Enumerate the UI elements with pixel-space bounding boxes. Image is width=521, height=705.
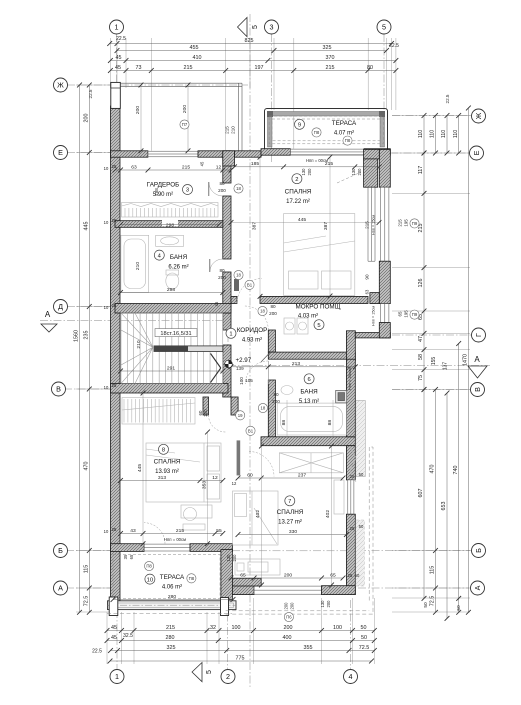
svg-text:65: 65 xyxy=(129,554,134,559)
svg-text:197: 197 xyxy=(255,65,264,71)
svg-text:200: 200 xyxy=(84,114,90,123)
svg-text:5: 5 xyxy=(252,25,259,29)
window 215-195 right xyxy=(380,187,389,261)
terrace9 parapet outline xyxy=(265,109,388,156)
svg-text:50: 50 xyxy=(423,602,429,608)
extension lines right xyxy=(392,115,470,117)
grid axis 5 vertical xyxy=(383,34,385,112)
svg-text:В1: В1 xyxy=(247,282,253,287)
grid line E left xyxy=(67,152,112,154)
svg-text:110: 110 xyxy=(441,130,447,138)
svg-text:18: 18 xyxy=(260,309,265,314)
svg-text:18: 18 xyxy=(236,273,241,278)
svg-text:10: 10 xyxy=(104,220,109,225)
svg-text:200: 200 xyxy=(284,602,289,610)
svg-text:50: 50 xyxy=(355,573,360,578)
svg-text:2: 2 xyxy=(226,672,230,681)
svg-text:13.93 m²: 13.93 m² xyxy=(155,469,179,475)
dim right total 1470 xyxy=(463,106,471,615)
svg-text:22.5: 22.5 xyxy=(389,43,399,49)
svg-text:60: 60 xyxy=(247,472,253,478)
svg-text:ГАРДЕРОБ: ГАРДЕРОБ xyxy=(147,182,180,189)
svg-text:215: 215 xyxy=(326,65,335,71)
terrace door window 130-200 xyxy=(290,149,364,156)
svg-text:5: 5 xyxy=(206,670,213,674)
door spalnya7 arc xyxy=(249,452,274,477)
svg-text:215: 215 xyxy=(365,221,370,229)
room label terasa10 xyxy=(160,574,185,591)
svg-text:126: 126 xyxy=(418,279,424,288)
wall east jog xyxy=(355,333,390,338)
svg-text:4.03 m²: 4.03 m² xyxy=(298,314,318,320)
svg-text:445: 445 xyxy=(84,222,90,231)
dashed roof outline bottom-right xyxy=(226,447,373,614)
svg-text:БАНЯ: БАНЯ xyxy=(170,254,188,261)
wall spalnya7 south right xyxy=(322,586,356,595)
svg-text:210: 210 xyxy=(135,262,141,270)
svg-text:90: 90 xyxy=(365,274,370,280)
svg-text:80: 80 xyxy=(270,304,276,309)
svg-text:200: 200 xyxy=(203,409,208,417)
svg-text:12: 12 xyxy=(216,164,222,170)
wall spalnya2 east corner block xyxy=(364,149,380,159)
svg-text:215: 215 xyxy=(176,528,184,534)
svg-text:75: 75 xyxy=(418,375,424,381)
bed spalnya8 xyxy=(146,443,221,502)
wall right outer low xyxy=(379,323,390,338)
svg-text:200: 200 xyxy=(290,602,295,610)
svg-text:400: 400 xyxy=(283,635,292,641)
svg-text:ТЕРАСА: ТЕРАСА xyxy=(332,120,357,127)
terrace10 dashed border xyxy=(113,555,220,599)
wall spalnya7 south left xyxy=(226,586,254,595)
svg-text:25: 25 xyxy=(112,218,117,223)
grid bubble V left xyxy=(52,382,66,396)
svg-text:200: 200 xyxy=(232,554,237,562)
grid line V left xyxy=(64,388,112,390)
room label garderob xyxy=(147,182,180,199)
svg-text:775: 775 xyxy=(236,655,245,661)
svg-text:130: 130 xyxy=(301,168,306,176)
stairs handrail xyxy=(154,346,223,352)
svg-text:5.13 m²: 5.13 m² xyxy=(299,399,319,405)
wall corridor top stub xyxy=(231,296,237,303)
svg-text:35: 35 xyxy=(123,554,128,559)
svg-text:18: 18 xyxy=(236,186,241,191)
svg-text:45: 45 xyxy=(111,625,117,631)
svg-text:50: 50 xyxy=(361,625,367,631)
grid bubble Zh left xyxy=(54,78,68,92)
dim line corridor 200 b xyxy=(187,85,189,151)
svg-text:387: 387 xyxy=(323,222,329,230)
svg-text:Нпп = 00см: Нпп = 00см xyxy=(164,537,186,542)
wall pier at window65 xyxy=(370,293,379,304)
dim chain top 825 xyxy=(107,38,394,46)
grid line B through spalnya7 xyxy=(232,550,358,552)
svg-text:50: 50 xyxy=(361,635,367,641)
wall terrace10 east xyxy=(221,550,233,600)
svg-text:470: 470 xyxy=(84,462,90,471)
dashed line under terrace10 xyxy=(107,613,232,615)
svg-text:470: 470 xyxy=(430,465,436,474)
svg-text:130: 130 xyxy=(320,600,325,608)
svg-text:1: 1 xyxy=(229,332,232,338)
svg-text:25: 25 xyxy=(112,164,117,169)
svg-text:6: 6 xyxy=(307,377,310,383)
svg-text:110: 110 xyxy=(453,130,459,138)
svg-text:Нпп = 15см: Нпп = 15см xyxy=(372,215,376,235)
svg-text:330: 330 xyxy=(289,529,297,535)
room number 2 xyxy=(292,174,302,184)
svg-text:45: 45 xyxy=(115,65,121,71)
stairs treads xyxy=(121,313,223,384)
svg-text:Ж: Ж xyxy=(57,81,64,90)
svg-text:215: 215 xyxy=(182,164,190,170)
svg-text:402: 402 xyxy=(255,510,261,518)
grid bubble V right xyxy=(471,383,485,397)
svg-text:105: 105 xyxy=(245,378,253,383)
svg-text:25: 25 xyxy=(350,474,355,479)
electrical panel spalnya2 xyxy=(234,279,239,291)
svg-text:370: 370 xyxy=(326,55,335,61)
wall E left segment xyxy=(111,151,149,157)
svg-text:Е: Е xyxy=(472,150,481,155)
wall right outer mid xyxy=(379,261,390,303)
dim chain bottom 1 xyxy=(105,625,377,633)
svg-text:17.22 m²: 17.22 m² xyxy=(286,199,310,205)
wardrobe garderob xyxy=(122,203,219,218)
dim stairs 291 xyxy=(118,365,225,373)
grid bubble B left xyxy=(54,544,68,558)
wall E right segment xyxy=(198,151,235,157)
svg-text:355: 355 xyxy=(304,645,313,651)
svg-text:100: 100 xyxy=(232,625,241,631)
tag B1 spalnya2 xyxy=(245,280,254,289)
wall banya4-stairs xyxy=(115,304,231,314)
svg-text:237: 237 xyxy=(298,472,306,478)
dim chain bottom 775 xyxy=(108,655,374,663)
svg-text:5: 5 xyxy=(317,323,320,329)
dresser spalnya7 xyxy=(235,559,280,575)
svg-text:ТЕРАСА: ТЕРАСА xyxy=(160,574,185,581)
svg-text:25: 25 xyxy=(350,526,355,531)
svg-text:88: 88 xyxy=(327,420,333,426)
svg-text:Б: Б xyxy=(474,548,483,553)
svg-text:402: 402 xyxy=(325,510,331,518)
svg-text:280: 280 xyxy=(166,635,175,641)
svg-text:235: 235 xyxy=(84,331,90,340)
svg-text:4.06 m²: 4.06 m² xyxy=(162,585,182,591)
partition spalnya7 west xyxy=(237,440,241,475)
svg-text:10: 10 xyxy=(104,385,109,390)
svg-text:10: 10 xyxy=(104,529,109,534)
svg-text:8: 8 xyxy=(162,448,165,454)
wall left outer xyxy=(111,106,121,609)
room label koridor xyxy=(237,327,268,344)
svg-text:80: 80 xyxy=(273,392,279,397)
svg-text:50: 50 xyxy=(359,524,364,529)
section line 5-5 vertical xyxy=(249,14,251,688)
grid bubble E right xyxy=(470,146,484,160)
svg-text:200: 200 xyxy=(218,188,226,193)
dim chain bottom 2 xyxy=(105,635,377,643)
terrace9 parapet top bar xyxy=(268,112,385,117)
door terrace10 arc xyxy=(144,523,165,544)
grid line A low right xyxy=(358,587,469,589)
svg-text:Г: Г xyxy=(474,333,483,337)
parapet top corridor xyxy=(120,83,242,151)
dim chain top 45-73-215-197-215-80 xyxy=(108,65,398,73)
grid bubble G right xyxy=(472,328,486,342)
svg-text:25: 25 xyxy=(112,527,117,532)
svg-text:Нпп = 15см: Нпп = 15см xyxy=(348,370,352,390)
svg-text:П8: П8 xyxy=(189,576,195,581)
svg-text:445: 445 xyxy=(298,217,306,223)
svg-text:195: 195 xyxy=(404,310,409,318)
toilet banya4 xyxy=(166,270,179,289)
grid axis 4 vertical xyxy=(350,600,352,669)
svg-text:110: 110 xyxy=(430,130,436,138)
svg-text:291: 291 xyxy=(167,365,175,371)
window P7 lintel in E wall xyxy=(148,151,198,157)
wall central upper a xyxy=(223,151,231,183)
right offsets chain 110x4 xyxy=(423,116,425,154)
svg-text:210: 210 xyxy=(231,126,236,134)
tag door 18 mokro xyxy=(258,306,267,315)
svg-text:4.07 m²: 4.07 m² xyxy=(334,131,354,137)
svg-text:80: 80 xyxy=(219,181,225,186)
svg-text:П8: П8 xyxy=(345,138,351,143)
dim spalnya7 330 xyxy=(236,529,349,537)
svg-text:65: 65 xyxy=(330,572,336,578)
dim spalnya2 185-215 xyxy=(232,161,382,169)
svg-text:215: 215 xyxy=(184,65,193,71)
wall mokro west lower xyxy=(268,330,275,352)
washing machine banya6 xyxy=(336,390,347,403)
svg-text:325: 325 xyxy=(167,645,176,651)
grid bubble 3 top xyxy=(265,20,279,34)
svg-text:63: 63 xyxy=(131,164,137,170)
room number 10 xyxy=(145,574,155,584)
ledge dashed strip right of spalnya7 xyxy=(356,520,365,586)
svg-text:22.5: 22.5 xyxy=(88,89,93,98)
grid bubble 1 top xyxy=(110,20,124,34)
wall stairs-spalnya8 xyxy=(111,384,229,394)
svg-text:Нпп = 00см: Нпп = 00см xyxy=(306,158,328,163)
svg-text:50: 50 xyxy=(456,605,462,611)
wall garderob-banya4 xyxy=(115,221,223,228)
extension lines left xyxy=(76,84,110,86)
svg-text:65: 65 xyxy=(240,572,246,578)
wall banya6 west xyxy=(268,380,275,437)
svg-text:4.93 m²: 4.93 m² xyxy=(242,338,262,344)
svg-text:A: A xyxy=(474,355,480,364)
extension lines bottom xyxy=(106,612,108,664)
svg-text:50: 50 xyxy=(359,472,364,477)
svg-text:155: 155 xyxy=(431,357,437,366)
grid axis 3 vertical xyxy=(271,34,273,162)
tag P8 terrace10 a xyxy=(145,561,154,570)
wall central corner block xyxy=(223,151,235,166)
svg-text:110: 110 xyxy=(418,130,424,138)
svg-text:В: В xyxy=(56,385,61,394)
svg-text:БАНЯ: БАНЯ xyxy=(300,389,318,396)
wardrobe spalnya7 top xyxy=(279,453,343,473)
tag door 18 garderob xyxy=(234,184,243,193)
svg-text:55: 55 xyxy=(216,528,222,534)
svg-text:1: 1 xyxy=(115,672,119,681)
grid axis 2 vertical xyxy=(227,600,229,669)
door banya6 arc xyxy=(245,361,268,384)
dim line corridor 200 a xyxy=(140,85,142,151)
dim chain top 455-325 xyxy=(115,45,389,53)
svg-text:22.5: 22.5 xyxy=(92,649,102,655)
wall banya6-spalnya7 xyxy=(261,437,355,446)
svg-text:213: 213 xyxy=(292,361,300,367)
svg-text:43: 43 xyxy=(130,528,136,534)
dim spalnya7 south xyxy=(229,572,346,580)
svg-text:137: 137 xyxy=(443,362,449,371)
svg-text:П6: П6 xyxy=(286,615,292,620)
inner glazing spalnya2 east xyxy=(368,187,375,261)
svg-text:139: 139 xyxy=(236,366,244,371)
svg-text:1560: 1560 xyxy=(74,330,80,342)
svg-text:A: A xyxy=(45,310,51,319)
svg-text:72.5: 72.5 xyxy=(359,645,370,651)
wall central upper c xyxy=(223,272,231,313)
dim line spalnya2 vertical 387 xyxy=(329,157,331,296)
tag door 19 spalnya8 xyxy=(236,411,245,420)
section marker 5 bottom xyxy=(192,663,213,682)
svg-text:215: 215 xyxy=(398,219,403,227)
svg-text:353: 353 xyxy=(202,481,208,489)
svg-text:МОКРО ПОМЩ: МОКРО ПОМЩ xyxy=(295,304,340,311)
svg-text:825: 825 xyxy=(245,38,254,44)
svg-text:А: А xyxy=(58,584,63,593)
svg-text:210: 210 xyxy=(136,340,142,348)
dim line banya6 88a xyxy=(286,400,288,437)
svg-text:3: 3 xyxy=(186,188,189,194)
room label banya4 xyxy=(168,254,188,271)
svg-text:25: 25 xyxy=(112,303,117,308)
svg-text:1: 1 xyxy=(115,23,119,32)
room number 7 xyxy=(285,496,295,506)
section marker A right xyxy=(468,355,487,378)
window 65-195 right xyxy=(380,304,389,323)
svg-text:6.26 m²: 6.26 m² xyxy=(168,265,188,271)
door banya4 arc xyxy=(210,259,223,272)
svg-text:1470: 1470 xyxy=(463,354,469,366)
grid line Zh left xyxy=(67,84,248,86)
level mark +2.97 xyxy=(225,357,252,371)
svg-text:653: 653 xyxy=(441,502,447,511)
grid line E right xyxy=(390,152,469,154)
terrace10 parapet right post xyxy=(221,598,229,616)
door mokro arc xyxy=(244,306,268,330)
svg-text:100: 100 xyxy=(239,377,244,385)
grid bubble E left xyxy=(54,146,68,160)
room number 1 xyxy=(226,328,236,338)
section line A-A jog xyxy=(227,321,229,366)
window direction dash spalnya2 xyxy=(337,172,361,183)
section jog slash xyxy=(261,353,270,363)
svg-text:12: 12 xyxy=(232,481,237,486)
dim chain top 45-410-370 xyxy=(108,55,398,63)
tag P8 terrace10 b xyxy=(187,574,196,583)
tag window right b xyxy=(410,310,419,319)
svg-text:200: 200 xyxy=(182,105,188,113)
bed spalnya7 xyxy=(233,491,279,545)
svg-text:10: 10 xyxy=(104,166,109,171)
dim right 607 xyxy=(418,387,426,601)
svg-text:П9: П9 xyxy=(412,312,418,317)
svg-text:215: 215 xyxy=(225,126,230,134)
terrace10 parapet left post xyxy=(109,597,118,616)
svg-text:13.27 m²: 13.27 m² xyxy=(278,520,302,526)
svg-text:45: 45 xyxy=(111,635,117,641)
room number 9 xyxy=(295,119,305,129)
tag P6 window xyxy=(284,612,293,621)
svg-text:63: 63 xyxy=(365,289,370,294)
svg-text:115: 115 xyxy=(430,566,436,575)
dim mokro 213 xyxy=(229,361,358,369)
tag door 18 spalnya7 xyxy=(258,403,267,412)
room number 6 xyxy=(304,374,314,384)
dim spalnya7 237 xyxy=(236,472,346,480)
grid bubble A left xyxy=(54,581,68,595)
svg-text:10: 10 xyxy=(147,577,153,583)
wall spalnya8-terrace10 right xyxy=(190,544,232,552)
dim terrace10 280 xyxy=(111,594,236,602)
svg-text:22.5: 22.5 xyxy=(116,36,126,42)
grid bubble B right xyxy=(472,544,486,558)
svg-text:В1: В1 xyxy=(248,428,254,433)
svg-text:19: 19 xyxy=(238,413,243,418)
door garderob arc xyxy=(209,182,223,196)
room label terasa9 xyxy=(332,120,357,137)
svg-text:3: 3 xyxy=(270,23,274,32)
svg-text:130: 130 xyxy=(351,168,356,176)
svg-text:200: 200 xyxy=(284,572,292,578)
svg-text:45: 45 xyxy=(200,161,205,166)
dim spalnya8 bottom xyxy=(118,528,225,536)
dim banya4 298 xyxy=(118,287,225,295)
svg-text:5: 5 xyxy=(382,23,386,32)
grid bubble Zh right xyxy=(472,109,486,123)
svg-text:80: 80 xyxy=(219,268,225,273)
tag P8 terrace9 b xyxy=(343,136,352,145)
dim line banya6 88b xyxy=(332,400,334,437)
dim right 740 xyxy=(453,341,461,615)
svg-text:72.5: 72.5 xyxy=(430,596,436,607)
wall spalnya2 north right segment xyxy=(364,149,390,156)
svg-text:СПАЛНЯ: СПАЛНЯ xyxy=(154,459,181,466)
grid bubble 1 bottom xyxy=(110,670,124,684)
tag B1 panel xyxy=(246,426,255,435)
wall spalnya8-terrace10 left xyxy=(111,544,145,552)
svg-text:200: 200 xyxy=(269,311,277,316)
stairs winder diagonals xyxy=(121,313,153,384)
room label spalnya7 xyxy=(277,509,304,526)
stairs label box 18st xyxy=(155,329,197,337)
svg-text:Ж: Ж xyxy=(474,112,483,119)
svg-text:200: 200 xyxy=(135,106,141,114)
stairs direction arrow xyxy=(211,354,221,383)
svg-text:65: 65 xyxy=(398,311,403,316)
svg-text:325: 325 xyxy=(323,45,332,51)
sink banya4 xyxy=(156,235,184,246)
svg-text:200: 200 xyxy=(272,399,280,404)
